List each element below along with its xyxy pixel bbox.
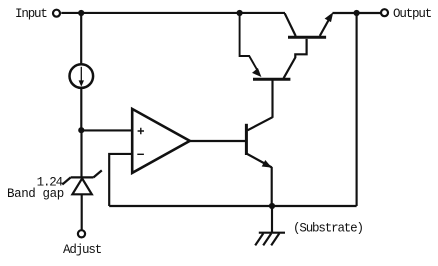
node output junction (354, 10, 360, 16)
wire input rail to current source (80, 13, 82, 64)
ground substrate (255, 233, 285, 246)
wire Q3 collector to Q2 base (271, 80, 273, 118)
wire plus input (81, 129, 131, 131)
transistor Q1 (285, 12, 334, 37)
node emitter/ground junction (269, 203, 275, 209)
wire op-amp output to Q3 base (190, 140, 245, 142)
svg-text:Adjust: Adjust (63, 243, 102, 257)
svg-text:Output: Output (393, 7, 432, 21)
svg-text:(Substrate): (Substrate) (293, 221, 363, 235)
node input/current-source junction (78, 10, 84, 16)
transistor Q3 (246, 117, 272, 167)
wire minus input feedback (109, 154, 131, 206)
node plus-input junction (78, 127, 84, 133)
node input/Q2 junction (237, 10, 243, 16)
wire output down to bottom rail (356, 13, 358, 206)
wire top rail from Input to Q1 collector (61, 12, 285, 14)
terminal Output (381, 9, 388, 16)
wire Q3 emitter to bottom rail (271, 167, 273, 206)
current source I1 (70, 64, 94, 88)
wire current source to plus-input junction and band gap (80, 89, 82, 177)
wire to substrate ground (271, 206, 273, 232)
terminal Adjust (78, 230, 85, 237)
zener D1 band gap (62, 170, 102, 194)
wire band gap to Adjust (81, 194, 83, 229)
svg-text:Band gap: Band gap (7, 187, 64, 201)
terminal Input (53, 10, 60, 17)
wire Q1 emitter to Output (333, 12, 381, 14)
transistor Q2 (240, 13, 307, 79)
op-amp U1 (132, 109, 190, 173)
svg-text:Input: Input (15, 7, 47, 21)
wire bottom rail (109, 205, 356, 207)
